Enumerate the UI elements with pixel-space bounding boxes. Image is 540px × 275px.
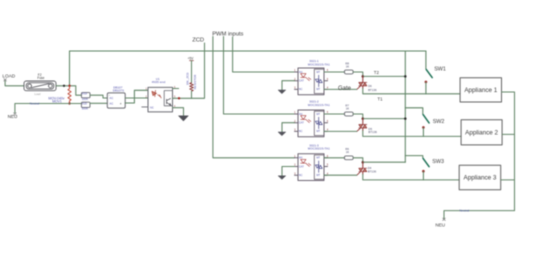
wire +5V to resistor <box>191 61 193 83</box>
ground MOC3 <box>278 176 286 180</box>
wire fuse to R19 corner <box>56 86 81 95</box>
svg-text:LOAD: LOAD <box>2 74 15 79</box>
wire LOAD to fuse <box>5 81 24 86</box>
wire SW2 branch <box>405 108 423 114</box>
node NEU left pin <box>14 113 17 115</box>
wire opto collector ZCD node <box>173 43 205 98</box>
junction dot T2 row3 node <box>362 161 365 164</box>
svg-text:T2: T2 <box>374 70 380 75</box>
svg-text:Fuse: Fuse <box>37 76 44 80</box>
junction dot MOV top <box>68 85 70 87</box>
wire appliance3 right <box>501 179 515 181</box>
optotriac 3021-2 MOC3021S-TA1 <box>294 100 330 137</box>
svg-text:T1: T1 <box>377 96 383 101</box>
svg-text:Load: Load <box>34 92 40 96</box>
svg-text:R19: R19 <box>82 92 87 96</box>
wire R8 to triac D6 <box>353 72 363 76</box>
resistor R19 <box>81 93 90 98</box>
resistor R20 <box>81 102 90 107</box>
bridge rectifier DB107 <box>107 93 125 108</box>
triac D4 BT136 <box>357 162 367 175</box>
wire R19 to bridge <box>90 95 107 98</box>
wire R6 to triac D4 <box>353 158 363 162</box>
svg-text:MOV1: MOV1 <box>52 99 62 103</box>
svg-text:AC: AC <box>109 96 113 100</box>
triac D6 BT136 <box>357 76 367 89</box>
junction dot ZCD node <box>178 97 180 99</box>
svg-text:AN: AN <box>299 70 303 74</box>
svg-text:BT136: BT136 <box>368 130 377 134</box>
junction dot MOV bottom <box>68 102 70 104</box>
svg-text:BT136: BT136 <box>368 169 377 173</box>
svg-text:500K: 500K <box>82 106 88 110</box>
svg-text:NC: NC <box>299 87 303 91</box>
svg-text:CAT: CAT <box>299 121 304 125</box>
optocoupler transistor <box>167 98 171 105</box>
svg-text:CAT: CAT <box>299 79 304 83</box>
svg-text:10K_ZCD: 10K_ZCD <box>185 73 189 86</box>
ground MOC2 <box>278 132 286 136</box>
switch SW1 <box>426 69 432 77</box>
svg-text:RESISTOR: RESISTOR <box>193 75 197 90</box>
svg-text:AN: AN <box>299 156 303 160</box>
varistor MOV1 <box>68 86 71 104</box>
svg-text:MT: MT <box>316 129 320 133</box>
wire top live rail <box>70 50 426 52</box>
node LOAD pin <box>4 79 7 81</box>
wire R7 to triac D5 <box>353 114 363 119</box>
wire live branch vertical <box>404 51 406 162</box>
svg-text:MT: MT <box>316 112 320 116</box>
junction dot T2 node <box>362 75 365 78</box>
svg-text:MOC3021S-TA1: MOC3021S-TA1 <box>308 147 330 151</box>
wire MOC1 pin6 to R8 <box>324 71 344 73</box>
wire MOC1 pin2 to ground <box>282 81 295 90</box>
wire neutral return bottom <box>444 211 515 219</box>
svg-text:Appliance 3: Appliance 3 <box>464 175 497 182</box>
wire MOC3 pin4 gate <box>324 174 357 176</box>
svg-text:MT: MT <box>316 87 320 91</box>
svg-text:MOC3021S-TA1: MOC3021S-TA1 <box>308 103 330 107</box>
wire PWM line 1 <box>233 37 295 72</box>
wire neutral line <box>15 104 82 113</box>
wire PWM line 3 <box>213 37 295 158</box>
svg-text:NEU: NEU <box>8 114 18 119</box>
wire T1 row2 line <box>363 131 461 137</box>
svg-text:NEU: NEU <box>435 222 445 227</box>
resistor R7 <box>344 112 353 116</box>
wire MOC2 pin4 gate <box>324 130 357 132</box>
appliance box 1 <box>460 78 501 102</box>
wire MOC2 pin6 to R7 <box>324 113 344 115</box>
fuse F2 <box>24 81 56 91</box>
svg-text:MT: MT <box>316 173 320 177</box>
svg-text:Gate: Gate <box>338 86 352 92</box>
svg-text:1K: 1K <box>346 106 350 110</box>
wire MOC1 pin4 gate <box>324 88 357 90</box>
node NEU right pin <box>443 218 446 220</box>
svg-text:NC: NC <box>299 173 303 177</box>
resistor R6 <box>344 156 353 160</box>
svg-text:1K: 1K <box>346 64 350 68</box>
svg-text:SW1: SW1 <box>434 66 446 72</box>
wire bridge minus to opto pin2 <box>125 97 148 99</box>
wire rail to SW1 <box>425 51 427 69</box>
wire MOC2 pin2 to ground <box>282 123 295 132</box>
svg-text:CAT: CAT <box>299 164 304 168</box>
svg-text:Appliance 1: Appliance 1 <box>464 87 497 94</box>
optocoupler pin3 NC stub <box>142 106 148 108</box>
appliance box 2 <box>461 120 502 145</box>
svg-text:ZCD: ZCD <box>192 38 204 44</box>
svg-text:NC: NC <box>299 129 303 133</box>
wire T2 row2 line <box>363 118 406 120</box>
svg-text:Appliance 2: Appliance 2 <box>465 130 498 137</box>
junction dot fuse output <box>63 85 65 87</box>
svg-text:-: - <box>109 93 110 97</box>
resistor R8 <box>344 70 353 74</box>
wire opto pin6 stub <box>173 88 179 90</box>
svg-text:BT136: BT136 <box>368 88 377 92</box>
optotriac 3021-1 MOC3021S-TA1 <box>294 59 330 95</box>
svg-text:R20: R20 <box>82 101 87 105</box>
svg-text:Neutral: Neutral <box>459 209 469 213</box>
wire T2 row3 line <box>363 161 406 163</box>
wire R20 to bridge <box>90 102 107 104</box>
wire T1 row3 line <box>363 174 459 180</box>
wire MOC3 pin2 to ground <box>282 167 295 176</box>
wire MOC3 pin6 to R6 <box>324 157 344 159</box>
svg-text:AN: AN <box>299 112 303 116</box>
svg-text:MT: MT <box>316 70 320 74</box>
wire bridge plus to opto pin1 <box>125 90 148 103</box>
wire appliance2 right <box>502 133 514 135</box>
ground MOC1 <box>278 90 286 94</box>
supply +5V pin <box>190 60 194 62</box>
wire appliance1 right <box>502 92 515 211</box>
svg-text:MT: MT <box>316 156 320 160</box>
resistor 10K_ZCD <box>190 83 194 92</box>
wire SW3 branch <box>405 156 423 158</box>
svg-text:DB107S: DB107S <box>113 88 124 92</box>
junction dot T2 row2 node <box>362 117 365 120</box>
svg-text:100K: 100K <box>82 97 88 101</box>
svg-text:MOC3021S-TA1: MOC3021S-TA1 <box>308 62 330 66</box>
optocoupler LED <box>152 90 161 98</box>
svg-text:4N35 smd: 4N35 smd <box>152 80 166 84</box>
svg-text:1K: 1K <box>346 150 350 154</box>
optotriac 3021-3 MOC3021S-TA1 <box>294 143 330 180</box>
triac D5 BT136 <box>357 119 367 132</box>
wire opto emitter to ground <box>173 108 184 116</box>
switch SW3 <box>423 158 429 166</box>
wire T2 line <box>363 75 406 77</box>
wire T1 line row1 <box>363 88 460 93</box>
wire resistor to ZCD line <box>191 91 193 98</box>
appliance box 3 <box>459 165 501 190</box>
svg-text:Neutral: Neutral <box>30 102 40 106</box>
optocoupler U1 4N35 <box>148 87 173 112</box>
junction dot T2 row2 rail <box>404 117 407 120</box>
svg-text:PWM inputs: PWM inputs <box>212 31 243 37</box>
svg-text:SW2: SW2 <box>433 119 445 125</box>
svg-text:NC: NC <box>150 105 154 109</box>
svg-text:+: + <box>120 102 122 106</box>
svg-text:+5V: +5V <box>188 57 195 61</box>
switch SW2 <box>423 115 429 123</box>
ground opto <box>179 116 189 121</box>
wire live rail riser <box>69 51 71 86</box>
wire PWM line 2 <box>224 37 295 115</box>
svg-text:SW3: SW3 <box>432 159 444 165</box>
junction dot T2 row1 rail <box>404 75 407 78</box>
svg-text:AC: AC <box>109 102 113 106</box>
